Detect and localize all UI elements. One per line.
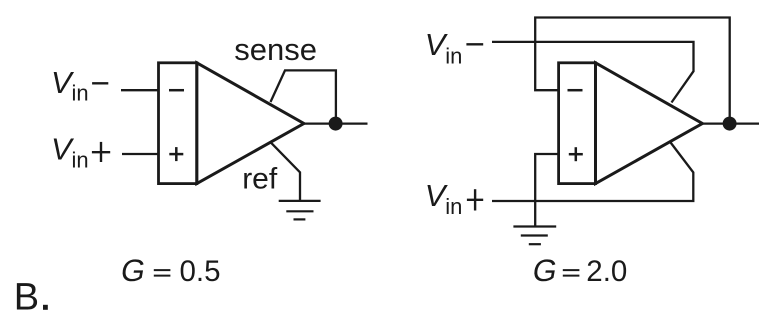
svg-text:ref: ref bbox=[242, 162, 278, 195]
wire U2 output bbox=[702, 122, 759, 124]
svg-text:in: in bbox=[445, 194, 462, 219]
wire Vin- to U1 minus input bbox=[121, 89, 159, 91]
wire U1 sense pin to output node bbox=[271, 70, 336, 123]
wire U2 minus input feedback: pin to top rail to output node bbox=[535, 18, 730, 124]
svg-text:G: G bbox=[118, 253, 148, 288]
svg-text:G: G bbox=[530, 253, 560, 288]
svg-text:0.5: 0.5 bbox=[180, 255, 221, 288]
label Vin- (left) minus sign bbox=[92, 82, 108, 84]
ground (right circuit) bbox=[513, 227, 556, 245]
svg-text:in: in bbox=[72, 81, 89, 106]
node: U2 output junction dot bbox=[723, 117, 737, 131]
svg-text:2.0: 2.0 bbox=[586, 255, 627, 288]
label Vin- (right) minus sign bbox=[466, 43, 483, 45]
op-amp U2 triangle bbox=[596, 63, 703, 184]
label Vin+ (left) plus sign bbox=[92, 142, 110, 162]
U2 plus input marker bbox=[569, 147, 583, 161]
svg-text:sense: sense bbox=[234, 32, 317, 67]
svg-text:in: in bbox=[72, 148, 89, 173]
op-amp U1 triangle bbox=[197, 63, 304, 184]
op-amp U1 input-stage box bbox=[159, 63, 197, 184]
U1 minus input marker bbox=[169, 89, 184, 92]
wire U2 plus input to ground bbox=[535, 154, 558, 227]
svg-text:in: in bbox=[445, 43, 462, 68]
wire U1 output bbox=[304, 122, 368, 124]
wire Vin+ to U1 plus input bbox=[122, 153, 159, 155]
node: U1 output junction dot bbox=[329, 117, 343, 131]
wire U1 ref pin to ground bbox=[271, 142, 301, 201]
wire Vin- input rail to U2 sense pin bbox=[492, 42, 694, 103]
gain label G = 2.0 bbox=[530, 253, 627, 288]
U1 plus input marker bbox=[169, 147, 183, 161]
ground (left circuit) bbox=[279, 201, 321, 220]
svg-text:B: B bbox=[14, 277, 39, 319]
label Vin+ (right) plus sign bbox=[467, 189, 483, 210]
U2 minus input marker bbox=[568, 89, 583, 92]
op-amp U2 input-stage box bbox=[559, 63, 596, 184]
gain label G = 0.5 bbox=[118, 253, 220, 288]
wire Vin+ input rail to U2 ref pin bbox=[492, 142, 693, 201]
